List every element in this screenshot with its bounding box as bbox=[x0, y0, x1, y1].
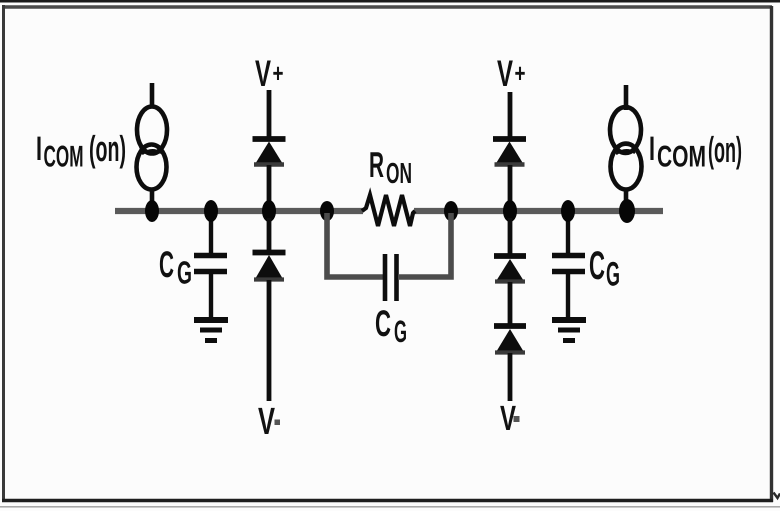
label V- right bbox=[500, 399, 520, 438]
label I_COM(on) left bbox=[36, 128, 126, 174]
capacitor C2 C_G middle bbox=[385, 254, 397, 301]
ground left bbox=[194, 320, 228, 341]
node junction at right C_G bbox=[561, 200, 575, 222]
svg-text:(on): (on) bbox=[708, 129, 742, 170]
current source I1 I_COM(on) left bbox=[137, 83, 168, 204]
label V+ left bbox=[255, 53, 284, 94]
capacitor C3 C_G right bbox=[552, 211, 585, 317]
wire: COM bus right segment bbox=[414, 208, 663, 214]
diode D1 left upper (to V+) bbox=[253, 90, 286, 203]
svg-text:V: V bbox=[255, 53, 271, 94]
svg-text:G: G bbox=[606, 256, 620, 294]
svg-text:R: R bbox=[369, 144, 384, 185]
ground right bbox=[552, 320, 586, 341]
node junction at left current source bbox=[145, 200, 159, 222]
svg-text:G: G bbox=[394, 314, 407, 349]
svg-text:(on): (on) bbox=[89, 128, 126, 169]
diode D2 left lower (to V-) bbox=[253, 218, 286, 401]
resistor R_ON bbox=[362, 195, 415, 226]
diode D4 right middle (to V-) bbox=[494, 218, 526, 282]
label V- left bbox=[258, 401, 280, 443]
diode D3 right upper (to V+) bbox=[493, 92, 526, 203]
node junction left of R_ON bbox=[320, 201, 334, 221]
svg-text:ON: ON bbox=[386, 158, 412, 190]
current source I2 I_COM(on) right bbox=[610, 85, 642, 204]
label C_G right bbox=[589, 244, 620, 294]
node junction right of R_ON bbox=[444, 201, 458, 221]
label C_G left bbox=[159, 244, 192, 291]
svg-text:I: I bbox=[36, 130, 42, 168]
label C_G middle bbox=[375, 303, 407, 349]
svg-text:C: C bbox=[375, 303, 391, 344]
node junction at right diode column bbox=[503, 200, 517, 222]
svg-text:C: C bbox=[159, 244, 174, 285]
label I_COM(on) right bbox=[649, 129, 742, 174]
svg-text:I: I bbox=[649, 130, 655, 168]
label R_ON bbox=[369, 144, 412, 190]
wire: parallel branch right leg bbox=[398, 213, 451, 277]
svg-text:V: V bbox=[497, 53, 513, 94]
node junction at left diode column bbox=[262, 200, 276, 222]
diode D5 right lower (to V-) bbox=[494, 282, 526, 401]
node junction at left C_G bbox=[204, 200, 218, 222]
capacitor C1 C_G left bbox=[194, 211, 227, 317]
svg-text:COM: COM bbox=[44, 141, 84, 174]
wire: parallel branch left leg bbox=[327, 213, 383, 277]
svg-text:V: V bbox=[258, 401, 275, 443]
svg-text:G: G bbox=[177, 255, 192, 291]
node junction at right current source bbox=[619, 199, 635, 223]
label V+ right bbox=[497, 53, 526, 94]
wire: COM bus left segment bbox=[115, 208, 363, 214]
svg-text:C: C bbox=[589, 244, 605, 288]
svg-text:+: + bbox=[515, 58, 526, 88]
svg-text:+: + bbox=[273, 58, 284, 88]
svg-text:COM: COM bbox=[657, 141, 706, 174]
